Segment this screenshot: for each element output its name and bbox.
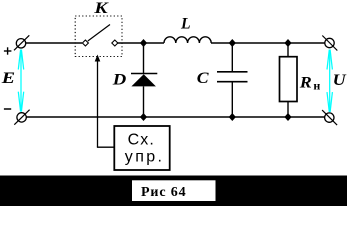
wire bottom rail [26, 116, 325, 118]
node junction top D [140, 39, 147, 47]
wire top rail left: terminal to K box [25, 42, 82, 44]
svg-text:K: K [93, 0, 109, 17]
wire [211, 42, 325, 44]
node junction bottom C [229, 113, 236, 121]
source E arrow (cyan) [18, 50, 23, 112]
diode D triangle [131, 74, 156, 86]
terminal bottom-left [17, 113, 26, 122]
switch blade [88, 25, 110, 42]
svg-text:R: R [299, 74, 312, 91]
svg-text:L: L [180, 15, 191, 32]
terminal top-right [325, 38, 334, 47]
resistor Rн branch wires [287, 43, 289, 57]
wire top rail: right contact to L and onward to top-right terminal [117, 42, 164, 44]
caption white box [132, 180, 216, 201]
diode D cathode bar [131, 73, 157, 75]
capacitor C branch wires [231, 43, 233, 72]
switch contact right [112, 40, 118, 46]
control box [114, 126, 169, 170]
svg-text:U: U [333, 72, 347, 89]
diode D branch wires [143, 43, 145, 74]
svg-text:Рис 64: Рис 64 [141, 185, 186, 200]
control arrow into K [95, 55, 101, 62]
terminal bottom-right [325, 113, 334, 122]
node junction top R [284, 39, 291, 47]
output U arrow (cyan) [327, 50, 332, 112]
control wire vertical [97, 59, 99, 147]
capacitor C plates [217, 71, 248, 73]
svg-text:E: E [1, 70, 16, 87]
node junction bottom D [140, 113, 147, 121]
svg-text:н: н [313, 79, 320, 93]
terminal top-left [16, 39, 25, 48]
resistor Rн body [280, 57, 298, 102]
svg-text:Сх.: Сх. [128, 132, 154, 149]
switch box K (dotted) [75, 16, 122, 57]
svg-text:D: D [112, 71, 127, 88]
inductor L [164, 37, 211, 43]
node junction bottom R [284, 113, 291, 121]
svg-text:C: C [197, 70, 209, 87]
control wire horizontal [97, 146, 114, 148]
switch contact left [82, 40, 88, 46]
node junction top C [229, 39, 236, 47]
plus sign [4, 47, 11, 54]
minus sign [4, 108, 11, 110]
caption black bar [0, 176, 347, 207]
